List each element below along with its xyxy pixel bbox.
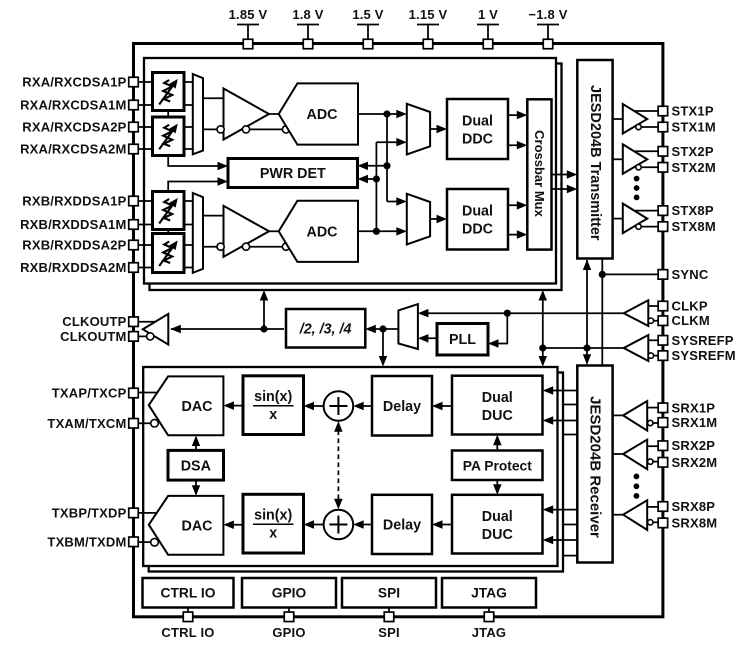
svg-text:PA Protect: PA Protect [463, 458, 532, 473]
svg-text:STX1M: STX1M [672, 120, 716, 135]
svg-text:DDC: DDC [462, 222, 493, 238]
svg-text:RXB/RXDDSA2M: RXB/RXDDSA2M [20, 260, 126, 275]
svg-text:TXAP/TXCP: TXAP/TXCP [52, 386, 127, 401]
svg-text:SYNC: SYNC [672, 267, 709, 282]
svg-text:1 V: 1 V [478, 7, 498, 22]
svg-text:TXBP/TXDP: TXBP/TXDP [52, 505, 127, 520]
svg-text:Dual: Dual [462, 114, 493, 130]
svg-text:/2, /3, /4: /2, /3, /4 [299, 321, 352, 337]
svg-text:DAC: DAC [182, 518, 213, 534]
svg-text:STX2M: STX2M [672, 160, 716, 175]
svg-text:SRX1M: SRX1M [672, 415, 718, 430]
svg-text:STX8P: STX8P [672, 203, 714, 218]
svg-text:JESD204B Transmitter: JESD204B Transmitter [587, 85, 603, 241]
svg-text:TXBM/TXDM: TXBM/TXDM [47, 534, 126, 549]
svg-text:1.15 V: 1.15 V [409, 7, 448, 22]
svg-text:JTAG: JTAG [471, 586, 507, 601]
svg-text:SPI: SPI [378, 586, 400, 601]
svg-text:CTRL IO: CTRL IO [161, 625, 214, 640]
svg-text:CLKP: CLKP [672, 299, 708, 314]
svg-text:Dual: Dual [462, 204, 493, 220]
svg-text:DDC: DDC [462, 132, 493, 148]
svg-text:RXB/RXDDSA1M: RXB/RXDDSA1M [20, 217, 126, 232]
svg-text:1.8 V: 1.8 V [292, 7, 323, 22]
svg-text:CTRL IO: CTRL IO [161, 586, 216, 601]
svg-text:RXA/RXCDSA1M: RXA/RXCDSA1M [20, 98, 126, 113]
svg-text:RXB/RXDDSA2P: RXB/RXDDSA2P [22, 238, 126, 253]
svg-text:DAC: DAC [182, 399, 213, 415]
svg-text:x: x [269, 407, 277, 423]
svg-text:Dual: Dual [482, 390, 513, 406]
svg-text:PWR DET: PWR DET [260, 166, 326, 182]
svg-text:SRX8P: SRX8P [672, 499, 716, 514]
svg-text:sin(x): sin(x) [254, 508, 292, 524]
svg-text:x: x [269, 526, 277, 542]
svg-text:RXB/RXDDSA1P: RXB/RXDDSA1P [22, 194, 126, 209]
svg-text:−1.8 V: −1.8 V [528, 7, 567, 22]
svg-text:1.5 V: 1.5 V [352, 7, 383, 22]
svg-text:ADC: ADC [307, 107, 338, 123]
svg-text:CLKOUTM: CLKOUTM [60, 329, 126, 344]
svg-text:JESD204B Receiver: JESD204B Receiver [587, 396, 604, 538]
svg-text:JTAG: JTAG [472, 625, 507, 640]
svg-text:SRX2P: SRX2P [672, 438, 716, 453]
svg-text:1.85 V: 1.85 V [229, 7, 268, 22]
svg-text:SRX2M: SRX2M [672, 455, 718, 470]
svg-text:ADC: ADC [307, 224, 338, 240]
svg-text:Delay: Delay [383, 399, 421, 415]
svg-text:STX1P: STX1P [672, 104, 714, 119]
svg-text:DUC: DUC [482, 527, 513, 543]
svg-text:RXA/RXCDSA2P: RXA/RXCDSA2P [22, 120, 126, 135]
svg-text:CLKM: CLKM [672, 313, 710, 328]
svg-text:RXA/RXCDSA2M: RXA/RXCDSA2M [20, 142, 126, 157]
svg-text:GPIO: GPIO [272, 586, 307, 601]
svg-text:Delay: Delay [383, 518, 421, 534]
svg-text:GPIO: GPIO [272, 625, 305, 640]
svg-text:TXAM/TXCM: TXAM/TXCM [47, 416, 126, 431]
svg-text:sin(x): sin(x) [254, 389, 292, 405]
svg-text:STX2P: STX2P [672, 144, 714, 159]
svg-text:SRX8M: SRX8M [672, 515, 718, 530]
svg-text:SRX1P: SRX1P [672, 400, 716, 415]
svg-text:Crossbar Mux: Crossbar Mux [532, 130, 547, 217]
svg-text:RXA/RXCDSA1P: RXA/RXCDSA1P [22, 75, 126, 90]
svg-text:Dual: Dual [482, 509, 513, 525]
svg-text:SYSREFM: SYSREFM [672, 348, 736, 363]
svg-text:DUC: DUC [482, 408, 513, 424]
svg-text:PLL: PLL [449, 332, 476, 348]
svg-text:SYSREFP: SYSREFP [672, 333, 734, 348]
svg-text:CLKOUTP: CLKOUTP [62, 314, 126, 329]
svg-text:SPI: SPI [378, 625, 400, 640]
svg-text:DSA: DSA [181, 459, 211, 475]
svg-text:STX8M: STX8M [672, 219, 716, 234]
